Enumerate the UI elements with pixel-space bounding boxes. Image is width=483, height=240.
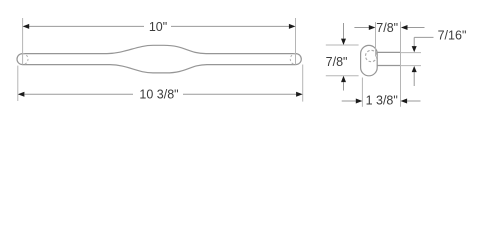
arrowhead 7/16 up bbox=[412, 66, 417, 72]
dimension tail 7/8 top left bbox=[354, 27, 369, 29]
end view oval body bbox=[361, 45, 378, 75]
svg-text:7/8": 7/8" bbox=[326, 55, 348, 69]
arrowhead 1-3/8 right bbox=[401, 99, 408, 104]
extension line 7/8 left-top bbox=[326, 44, 359, 46]
extension line right for 10in bbox=[295, 18, 297, 64]
dimension shaft 7/8 left upper bbox=[343, 23, 345, 39]
left end hidden arc bbox=[23, 54, 29, 65]
handle bottom outline bbox=[23, 65, 296, 73]
dimension line 10in right segment bbox=[171, 25, 289, 27]
extension line 7/16 bottom bbox=[401, 65, 421, 67]
dimension shaft 7/16 lower bbox=[413, 72, 415, 86]
svg-text:7/16": 7/16" bbox=[438, 28, 467, 42]
svg-text:7/8": 7/8" bbox=[376, 21, 398, 35]
arrowhead 7/8 left down bbox=[341, 39, 346, 45]
svg-text:1 3/8": 1 3/8" bbox=[366, 93, 398, 107]
end view bar circle bbox=[366, 50, 377, 61]
right end hidden arc bbox=[290, 54, 296, 65]
dimension shaft 7/16 upper bbox=[413, 37, 415, 46]
extension line 7/16 top bbox=[401, 52, 421, 54]
dimension line 10-3/8 left segment bbox=[25, 93, 133, 95]
leader 7/16 bbox=[414, 36, 433, 38]
handle top outline bbox=[23, 45, 296, 53]
arrowhead 7/16 down bbox=[412, 46, 417, 52]
dimension line 10in left segment bbox=[29, 25, 144, 27]
arrowhead 7/8 top right bbox=[401, 25, 408, 30]
dimension tail 1-3/8 left bbox=[342, 100, 356, 102]
extension line for 7/8 top left bbox=[375, 22, 377, 57]
extension line right for 10-3/8 bbox=[302, 65, 304, 102]
post top line bbox=[377, 51, 401, 53]
arrowhead 1-3/8 left bbox=[356, 99, 363, 104]
extension line left for 10-3/8 bbox=[17, 66, 19, 101]
extension line left for 10in bbox=[22, 18, 24, 64]
left end cap solid arc bbox=[17, 54, 23, 65]
arrowhead 10-3/8 left bbox=[18, 92, 25, 97]
arrowhead 10-3/8 right bbox=[296, 92, 303, 97]
dimension shaft 7/8 left lower bbox=[343, 82, 345, 90]
dimension line 10-3/8 right segment bbox=[183, 93, 296, 95]
arrowhead 10in right bbox=[289, 24, 296, 29]
right end cap solid arc bbox=[296, 54, 302, 65]
svg-text:10": 10" bbox=[149, 20, 167, 34]
post bottom line bbox=[377, 65, 401, 67]
dimension tail 7/8 top right bbox=[407, 27, 424, 29]
dimension tail 1-3/8 right bbox=[407, 100, 420, 102]
arrowhead 7/8 left up bbox=[341, 76, 346, 82]
extension line 7/8 left-bottom bbox=[326, 75, 359, 77]
svg-text:10 3/8": 10 3/8" bbox=[139, 88, 178, 102]
extension line 1-3/8 left bbox=[361, 78, 363, 107]
arrowhead 7/8 top left bbox=[369, 25, 376, 30]
arrowhead 10in left bbox=[23, 24, 30, 29]
wall extension line bbox=[400, 22, 402, 107]
